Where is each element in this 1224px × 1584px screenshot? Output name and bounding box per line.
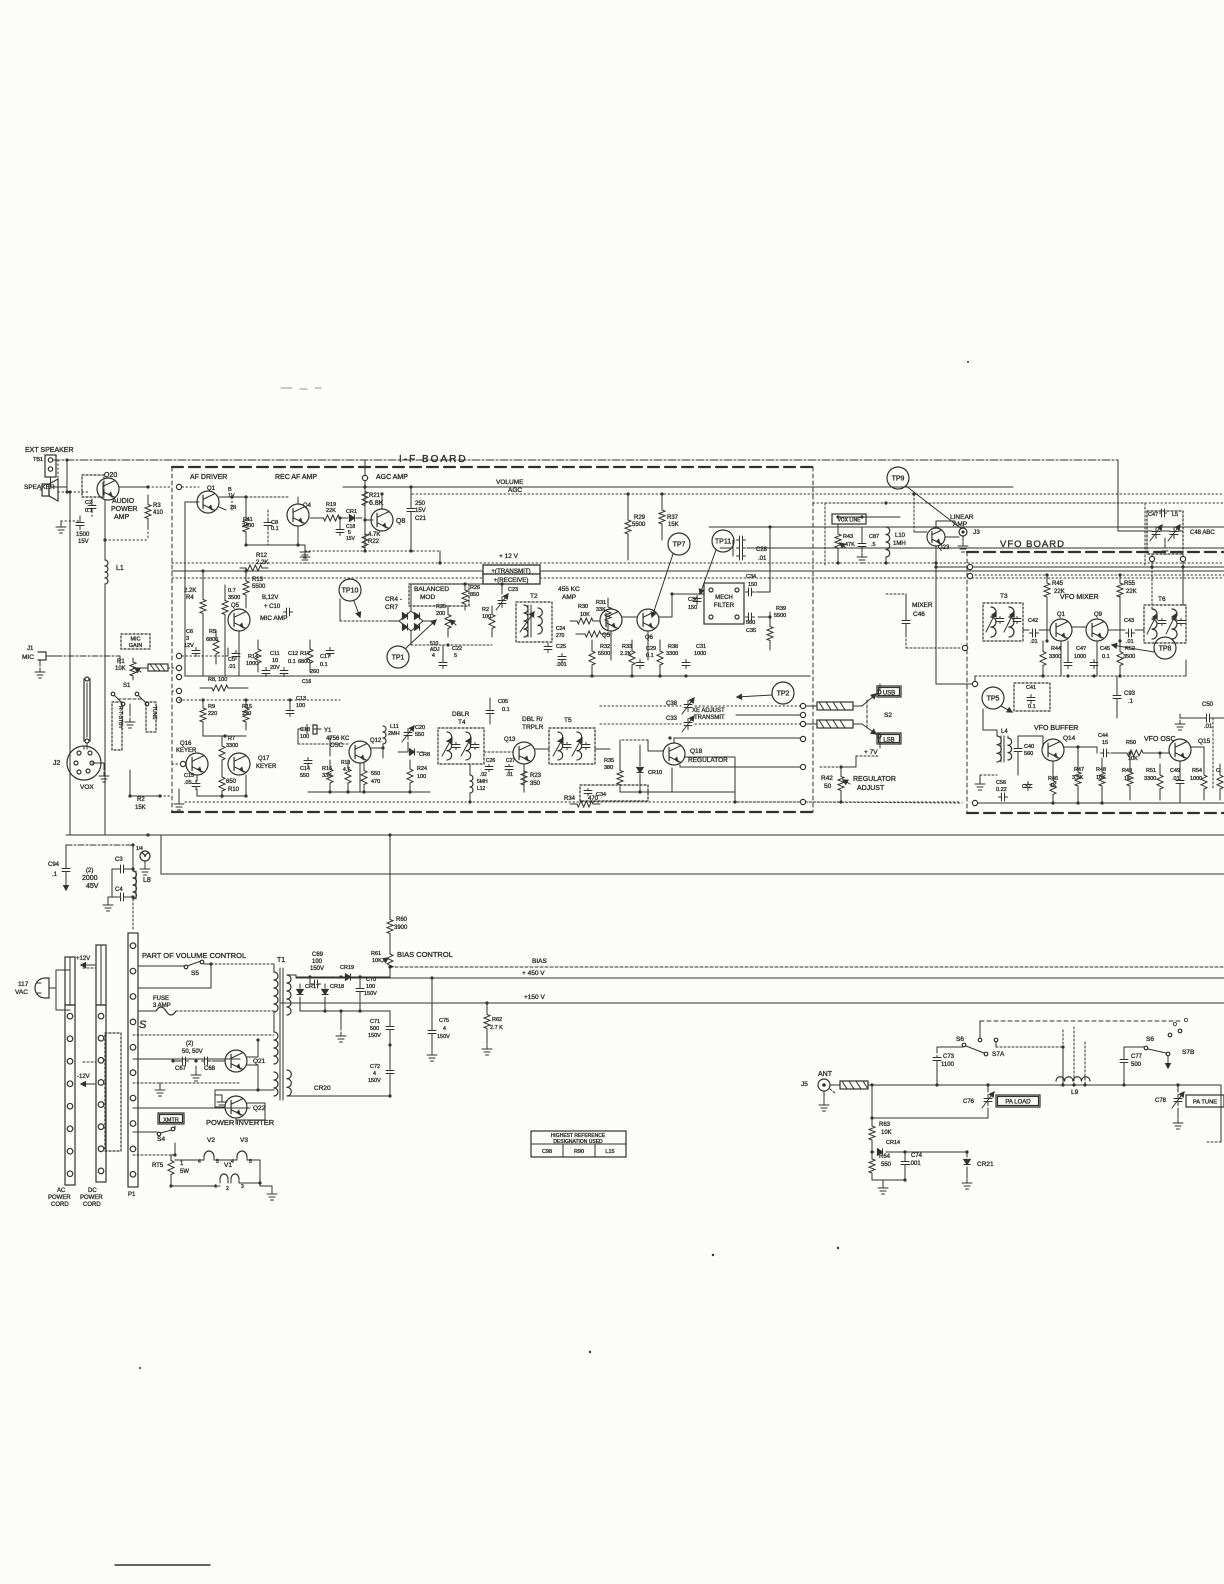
svg-text:MIC: MIC <box>22 654 34 661</box>
svg-text:POWER: POWER <box>48 1195 71 1201</box>
diode CR14b <box>870 1148 906 1155</box>
resistor R39 5500 <box>767 606 786 650</box>
wire Q1-Q4 row <box>219 497 298 510</box>
transistor Q20 <box>82 472 119 500</box>
resistor R46 1K <box>1048 775 1058 800</box>
svg-text:R18: R18 <box>341 760 350 766</box>
svg-text:DBLR: DBLR <box>452 711 470 718</box>
svg-text:.01: .01 <box>228 664 236 670</box>
wire C48 terminals to T6 <box>1120 567 1183 609</box>
capacitor C56 0.22 <box>996 780 1008 801</box>
svg-text:C12: C12 <box>288 651 298 657</box>
potentiometer R1 <box>115 658 141 680</box>
svg-text:C40: C40 <box>1024 744 1034 750</box>
capacitor C19 <box>336 516 356 542</box>
svg-text:CR18: CR18 <box>330 984 344 990</box>
transformer T3 <box>983 593 1023 641</box>
diode CR1 <box>345 509 362 521</box>
wire T1 inputs <box>133 1035 274 1108</box>
svg-text:L10: L10 <box>895 533 906 539</box>
terminal VFO left mid <box>934 563 977 687</box>
svg-text:REGULATOR: REGULATOR <box>688 757 728 764</box>
resistor R29 5500 <box>625 492 646 560</box>
svg-text:O: O <box>1173 1022 1177 1028</box>
svg-text:AMP: AMP <box>953 521 967 528</box>
svg-text:100: 100 <box>417 774 426 780</box>
svg-text:C76: C76 <box>963 1099 975 1105</box>
svg-text:3: 3 <box>241 1184 244 1190</box>
transformer T1 <box>274 957 291 1100</box>
svg-text:CR17: CR17 <box>305 984 319 990</box>
svg-text:R3: R3 <box>153 503 161 509</box>
svg-text:5500: 5500 <box>774 613 786 619</box>
svg-text:10: 10 <box>272 658 278 664</box>
coax to S2 upper <box>806 702 862 710</box>
svg-text:R51: R51 <box>1146 768 1156 774</box>
svg-text:TP11: TP11 <box>715 539 731 546</box>
wire Q1 base net <box>185 495 236 676</box>
test point TP9 <box>887 467 963 530</box>
svg-text:R2: R2 <box>137 797 145 803</box>
svg-text:R30: R30 <box>578 604 588 610</box>
diode ring CR4-CR7 <box>390 611 432 631</box>
svg-text:Q20: Q20 <box>104 472 117 479</box>
svg-text:150V: 150V <box>368 1033 381 1039</box>
svg-text:Q22: Q22 <box>253 1105 266 1112</box>
resistor R63 10K <box>869 1118 892 1148</box>
svg-text:REC AF AMP: REC AF AMP <box>275 474 317 481</box>
transformer T2 <box>516 593 552 642</box>
wire mixer in <box>886 594 968 651</box>
wire CR21 net <box>905 1150 969 1153</box>
resistor R54 1000 <box>1190 758 1207 800</box>
resistor R22 4.7K <box>362 524 380 551</box>
resistor R52 3500 <box>1117 641 1135 676</box>
svg-text:10K: 10K <box>115 666 126 672</box>
svg-text:410: 410 <box>153 510 164 516</box>
svg-text:BALANCED: BALANCED <box>414 586 449 593</box>
svg-text:R15: R15 <box>242 704 252 710</box>
svg-text:C33: C33 <box>666 716 678 722</box>
diode CR20 <box>287 1085 392 1098</box>
wire J1 to R1 <box>56 656 120 664</box>
svg-text:ADJUST: ADJUST <box>857 785 885 792</box>
svg-text:V1: V1 <box>224 1162 232 1169</box>
svg-text:3300: 3300 <box>226 743 238 749</box>
capacitor C42 <box>1028 618 1039 645</box>
svg-text:L8: L8 <box>143 877 151 884</box>
svg-text:560: 560 <box>1024 751 1033 757</box>
wire Q8 collector up <box>380 492 383 509</box>
label MIXER C46 <box>902 594 933 635</box>
svg-text:R54: R54 <box>1192 768 1202 774</box>
svg-text:R33: R33 <box>622 644 632 650</box>
label SPEAKER <box>24 484 55 491</box>
svg-text:.01: .01 <box>506 772 513 778</box>
wire +150V line b <box>281 994 1224 1003</box>
capacitor C36 150 <box>688 596 701 612</box>
svg-text:3500: 3500 <box>1123 654 1135 660</box>
svg-text:Q13: Q13 <box>504 737 516 743</box>
switch S1 <box>111 683 149 716</box>
wire doubler nets <box>468 749 610 804</box>
resistor R10 650 <box>219 770 240 798</box>
svg-text:+ 7V: + 7V <box>864 749 878 756</box>
svg-text:C20: C20 <box>415 725 425 731</box>
capacitor C11 <box>262 651 280 677</box>
svg-text:3900: 3900 <box>394 925 408 931</box>
wire top speaker bus <box>52 460 1147 531</box>
svg-text:0.1: 0.1 <box>502 707 510 713</box>
capacitor C72 <box>368 1043 394 1096</box>
svg-text:CR21: CR21 <box>977 1161 994 1168</box>
wire +12V bus <box>172 553 1224 563</box>
wire bal mod bottom <box>411 631 492 647</box>
capacitor C14 550 <box>300 758 312 780</box>
svg-text:PART OF VOLUME CONTROL: PART OF VOLUME CONTROL <box>142 951 246 960</box>
connector TB1 <box>33 455 56 477</box>
svg-text:1100: 1100 <box>941 1062 955 1068</box>
svg-text:100: 100 <box>300 734 309 740</box>
svg-text:L12: L12 <box>477 786 486 792</box>
wire inverter nets <box>215 1038 274 1124</box>
wire -12 label <box>77 1074 95 1086</box>
svg-text:R90: R90 <box>574 1149 584 1155</box>
svg-text:CR4 -: CR4 - <box>385 596 402 603</box>
svg-text:TB1: TB1 <box>33 457 43 463</box>
ground AGC <box>300 545 310 563</box>
wire 455 amp <box>611 617 672 660</box>
svg-text:10K: 10K <box>881 1130 892 1136</box>
capacitor C35 560 <box>746 613 757 634</box>
svg-text:33K: 33K <box>596 607 606 613</box>
svg-text:CR19: CR19 <box>340 965 354 971</box>
resistor R3 <box>145 495 164 528</box>
svg-text:C22: C22 <box>452 646 462 652</box>
transistor Q16 keyer <box>172 741 208 775</box>
svg-text:R35: R35 <box>604 758 614 764</box>
svg-text:TP9: TP9 <box>892 476 905 483</box>
svg-text:FUSE: FUSE <box>153 996 169 1002</box>
wire vox nets <box>836 515 900 564</box>
svg-text:TP5: TP5 <box>987 696 1000 703</box>
svg-text:4: 4 <box>443 1026 446 1032</box>
ground C50 <box>1175 714 1197 730</box>
svg-text:L1: L1 <box>116 565 124 572</box>
svg-text:C45: C45 <box>1100 646 1110 652</box>
capacitor C73b <box>933 1054 955 1087</box>
jack J5 ANT <box>0 0 1 1</box>
transistor Q12 <box>349 738 382 763</box>
IF left edge terminals <box>176 484 181 702</box>
wire Q18 nets <box>620 736 806 792</box>
svg-text:POWER: POWER <box>111 506 137 513</box>
capacitor C6 <box>184 629 200 657</box>
svg-text:150V: 150V <box>310 966 324 972</box>
capacitor C50 <box>1197 702 1224 730</box>
shielded cable to J2 <box>84 677 90 749</box>
svg-text:200: 200 <box>436 611 445 617</box>
svg-text:R37: R37 <box>667 515 679 521</box>
capacitor C27 <box>505 758 515 778</box>
svg-text:.01: .01 <box>1204 724 1213 730</box>
svg-text:550: 550 <box>300 773 309 779</box>
svg-text:R23: R23 <box>530 773 542 779</box>
svg-text:(2): (2) <box>186 1041 193 1047</box>
resistor R17 <box>298 640 313 672</box>
svg-text:1000: 1000 <box>1074 654 1086 660</box>
svg-text:AUDIO: AUDIO <box>112 498 135 505</box>
svg-text:VOLUME: VOLUME <box>496 479 524 486</box>
wire IF left stubs <box>172 487 199 691</box>
svg-text:5MH: 5MH <box>477 779 488 785</box>
transistor Q12 vfo <box>1086 612 1108 641</box>
boxed vertical label TUNE <box>146 702 157 732</box>
svg-text:J1: J1 <box>27 646 34 652</box>
svg-text:TP10: TP10 <box>342 588 359 595</box>
diode CR17 <box>297 984 319 1011</box>
resistor R47 3.3K <box>1072 747 1084 800</box>
svg-text:Q23: Q23 <box>938 545 950 551</box>
test point TP2 <box>737 682 794 704</box>
test point TP7 <box>651 533 690 617</box>
svg-text:4.7K: 4.7K <box>368 532 380 538</box>
diode CR14 <box>886 1140 900 1146</box>
connector DC power cord <box>80 945 106 1208</box>
resistor R45 22K <box>1044 575 1065 614</box>
capacitor C73 1100 <box>0 0 1 1</box>
wire C3C4 left <box>111 869 113 897</box>
svg-text:CR1: CR1 <box>346 509 357 515</box>
wire IF bottom dotted rail <box>185 801 960 803</box>
wire IF inner rail <box>185 675 810 677</box>
wire L8 down <box>132 899 134 931</box>
svg-text:R32: R32 <box>600 644 610 650</box>
capacitor C94 <box>48 845 70 890</box>
svg-text:S4: S4 <box>157 1136 165 1143</box>
capacitor C21 electrolytic <box>407 485 427 552</box>
svg-text:10K: 10K <box>580 612 590 618</box>
svg-text:100: 100 <box>366 984 375 990</box>
svg-text:2.2K: 2.2K <box>256 560 268 566</box>
svg-text:AMP: AMP <box>562 594 576 601</box>
label BALANCED MOD <box>409 584 469 606</box>
svg-text:C47: C47 <box>1148 512 1158 518</box>
resistor R31 33K <box>596 598 611 630</box>
resistor R51 3300 <box>1144 764 1163 800</box>
svg-text:3300: 3300 <box>1049 654 1061 660</box>
label bias B 1V <box>228 487 235 499</box>
svg-text:2MH: 2MH <box>388 731 400 737</box>
label R7 260 <box>310 669 319 675</box>
wire filter out line <box>709 526 1224 528</box>
resistor R15 220 <box>242 698 252 730</box>
label EXT SPEAKER <box>25 447 74 454</box>
svg-text:MIC: MIC <box>130 637 140 643</box>
svg-text:B,12V: B,12V <box>262 595 278 601</box>
svg-text:117: 117 <box>18 981 29 988</box>
capacitor C17 <box>320 648 334 669</box>
ground Q4 <box>300 545 310 558</box>
resistor R60 3900 <box>387 835 408 945</box>
svg-text:4: 4 <box>432 653 435 659</box>
capacitor C68 <box>194 1057 215 1072</box>
svg-text:C78: C78 <box>1155 1098 1167 1104</box>
svg-text:TUNE: TUNE <box>151 706 157 720</box>
svg-text:CR7: CR7 <box>385 604 398 611</box>
svg-text:CR20: CR20 <box>314 1085 331 1092</box>
svg-text:C41: C41 <box>1026 685 1036 691</box>
resistor RT5 <box>133 1155 189 1188</box>
svg-text:DC: DC <box>88 1188 97 1194</box>
svg-text:R42: R42 <box>821 775 833 782</box>
resistor R37 15K <box>659 492 679 540</box>
jack J5 ANTb <box>801 1071 836 1111</box>
wire VFO inner rail <box>975 660 1186 684</box>
svg-text:0.1: 0.1 <box>646 653 654 659</box>
svg-text:C98: C98 <box>542 1149 552 1155</box>
svg-text:AC: AC <box>57 1188 66 1194</box>
wire TRANSMIT bus <box>172 565 1224 575</box>
transformer T5 <box>549 717 595 764</box>
svg-text:C69: C69 <box>312 952 324 958</box>
svg-text:C3: C3 <box>115 857 123 863</box>
svg-text:33K: 33K <box>322 773 332 779</box>
fuse main <box>138 996 274 1015</box>
svg-text:3: 3 <box>186 636 189 642</box>
inductor L11 2MH <box>383 724 400 758</box>
svg-text:R24: R24 <box>417 766 427 772</box>
resistor R19 22K <box>310 502 345 521</box>
svg-text:50: 50 <box>824 783 832 790</box>
svg-text:15: 15 <box>1102 740 1108 746</box>
svg-text:150V: 150V <box>368 1078 381 1084</box>
svg-text:R60: R60 <box>396 917 408 923</box>
svg-text:3 AMP: 3 AMP <box>153 1003 171 1009</box>
inductor L9b <box>1056 1027 1090 1096</box>
svg-text:C4: C4 <box>115 887 123 893</box>
svg-text:5500: 5500 <box>252 584 266 590</box>
svg-text:2400: 2400 <box>242 523 254 529</box>
test point TP11 <box>699 530 734 594</box>
mechanical filter <box>704 583 744 624</box>
svg-text:VAC: VAC <box>15 989 28 996</box>
resistor R27 100 <box>482 606 495 637</box>
potentiometer R25 200 <box>436 604 456 637</box>
svg-text:R44: R44 <box>1051 646 1061 652</box>
svg-text:0.1: 0.1 <box>288 659 296 665</box>
transistor Q5b <box>600 609 622 631</box>
svg-text:0.1: 0.1 <box>1028 704 1036 710</box>
svg-text:Q5: Q5 <box>231 603 240 609</box>
svg-text:R22: R22 <box>368 539 380 545</box>
svg-text:2.2K: 2.2K <box>184 588 196 594</box>
wire +150V line <box>0 0 1 1</box>
wire PA lower rail <box>870 1085 988 1120</box>
svg-text:L15: L15 <box>605 1149 614 1155</box>
svg-text:3500: 3500 <box>228 595 240 601</box>
resistor R43 47K <box>835 515 855 558</box>
svg-text:C34: C34 <box>746 574 756 580</box>
svg-text:350: 350 <box>530 781 541 787</box>
capacitor C20 550 <box>402 725 425 752</box>
transistor Q15 <box>1169 738 1211 761</box>
capacitor CB 3 <box>857 527 879 563</box>
wire AGC bottom <box>305 549 442 564</box>
capacitor C74 <box>872 1152 923 1182</box>
test point TP10 <box>339 579 361 617</box>
svg-text:5500: 5500 <box>632 522 646 528</box>
capacitor C57 <box>1022 782 1032 791</box>
resistor R7 3300 <box>219 736 238 770</box>
svg-text:C15: C15 <box>184 773 194 779</box>
diode CR8 <box>398 749 430 758</box>
svg-text:Q1: Q1 <box>1057 612 1066 618</box>
boxed vertical label REC-TRANS-STBY <box>112 702 123 750</box>
svg-text:1500: 1500 <box>76 532 90 538</box>
svg-text:J3: J3 <box>973 529 980 536</box>
svg-text:VFO BUFFER: VFO BUFFER <box>1034 725 1078 732</box>
arrow TP8 <box>1112 643 1154 652</box>
svg-text:R50: R50 <box>1126 740 1136 746</box>
inductor L9 <box>0 0 1 1</box>
label B12V C10 <box>262 595 293 616</box>
label VFO MIXER <box>1060 594 1099 601</box>
svg-text:L11: L11 <box>390 724 399 730</box>
transistor Q5 mic amp <box>228 603 287 631</box>
label BIAS CONTROL <box>397 950 453 959</box>
capacitor C34b <box>580 785 648 801</box>
svg-text:XE ADJUST: XE ADJUST <box>692 708 725 714</box>
svg-text:.01: .01 <box>758 556 767 562</box>
svg-text:C4?: C4? <box>1076 646 1086 652</box>
svg-text:S1: S1 <box>123 683 131 689</box>
svg-text:C74: C74 <box>911 1153 923 1159</box>
coax ANT <box>830 1081 1221 1089</box>
svg-text:V3: V3 <box>240 1137 248 1144</box>
resistor R8 100 <box>200 677 248 691</box>
svg-text:KEYER: KEYER <box>176 748 197 754</box>
diode CR21 zener <box>962 1152 994 1189</box>
switch S7B <box>1144 1018 1194 1068</box>
connector main plug <box>128 933 138 1198</box>
svg-text:R4: R4 <box>186 595 194 601</box>
svg-text:DESIGNATION USED: DESIGNATION USED <box>553 1139 603 1145</box>
svg-text:R12: R12 <box>256 553 268 559</box>
resistor R6 3500 <box>222 585 240 630</box>
svg-text:S5: S5 <box>191 970 199 977</box>
resistor R24 100 <box>407 760 427 792</box>
svg-text:R63: R63 <box>879 1122 891 1128</box>
capacitor C77 500 <box>1120 1047 1146 1087</box>
wire osc top <box>1191 718 1213 790</box>
label XTAL ADJUST TRANSMIT <box>692 708 725 721</box>
label VFO BUFFER <box>1034 725 1078 732</box>
speaker icon <box>40 479 58 501</box>
svg-text:R48: R48 <box>1096 767 1106 773</box>
wire step down from rail <box>0 0 1 1</box>
switch S2 lower arm <box>862 724 881 744</box>
trimmer R24 <box>430 641 440 659</box>
svg-text:S7B: S7B <box>1182 1049 1194 1056</box>
svg-text:C05: C05 <box>498 699 508 705</box>
svg-text:+12V: +12V <box>76 956 90 962</box>
svg-text:KEYER: KEYER <box>256 764 277 770</box>
capacitor C31 1000 <box>682 644 706 669</box>
resistor R26 850 <box>462 582 480 610</box>
svg-text:R34: R34 <box>564 796 576 802</box>
capacitor C25 .001 <box>556 644 567 668</box>
